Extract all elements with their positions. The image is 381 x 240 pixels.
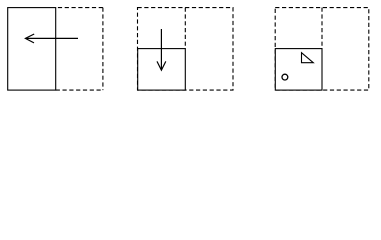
panel 1: left arrow shaft [27,37,79,39]
panel 1: dashed ghost rect (right half) [56,8,103,91]
panel 3: dashed mid line [321,8,323,49]
panel 2: down arrow shaft [160,29,162,69]
panel 3: touch point circle [282,74,288,80]
panel 3: dashed ghost outer rect [275,8,369,91]
panel 1: solid window rect (left half) [8,8,56,91]
panel 2: solid window rect (bottom-left quarter) [138,49,186,91]
panel 2: down arrow head [157,61,166,70]
panel 1: left arrow head [25,34,34,43]
panel 3: solid window rect (bottom-left quarter) [275,49,322,91]
panel 2: dashed ghost outer rect [138,8,234,91]
panel 3: cursor triangle [302,53,314,63]
panel 2: dashed mid line [184,8,186,49]
